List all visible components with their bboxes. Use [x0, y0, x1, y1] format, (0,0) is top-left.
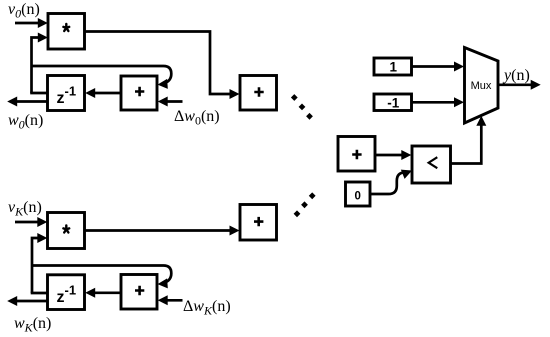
wire delta-w0 input arrow: [158, 97, 183, 107]
wire constant -1 to mux: [412, 97, 465, 107]
adder A2 box (weight update, tap K): [121, 275, 157, 310]
summer glyph +: [352, 150, 361, 159]
svg-text:vK(n): vK(n): [8, 199, 42, 219]
chain adder S2 box: [240, 205, 277, 241]
adder A2 glyph +: [135, 286, 144, 295]
svg-text:y(n): y(n): [502, 67, 530, 84]
svg-text:w0(n): w0(n): [8, 112, 43, 132]
multiplier U2 box: [48, 213, 85, 249]
wire w0 output arrow: [7, 97, 47, 107]
mux trapezoid: [465, 48, 499, 124]
wire multiplier U1 output to chain adder S1: [85, 32, 240, 100]
wire tap from delay output to feedback junction: [30, 92, 47, 95]
chain adder S1 box: [240, 76, 277, 111]
wire y(n) output arrow: [498, 80, 541, 90]
constant 1 box: [374, 58, 412, 75]
wire vK input arrow: [15, 217, 47, 227]
comparator box <: [412, 146, 451, 183]
wire adder A2 to delay (tap K): [85, 288, 121, 298]
wire delta-wK input arrow: [158, 295, 183, 305]
wire constant 0 to comparator (s-curve): [370, 166, 414, 194]
ellipsis dots upper chain: [291, 94, 313, 120]
wire comparator output to mux select: [451, 116, 487, 164]
constant -1 box: [374, 94, 412, 111]
chain adder S1 glyph +: [254, 87, 263, 96]
constant 0 box: [346, 182, 371, 206]
wire multiplier U2 output to chain adder S2: [85, 226, 240, 236]
multiplier U2 glyph *: [63, 225, 69, 232]
wire adder A1 to delay (tap 0): [85, 88, 121, 98]
summer box +: [338, 137, 375, 172]
wire summer to comparator: [375, 150, 411, 160]
svg-text:1: 1: [390, 60, 398, 75]
chain adder S2 glyph +: [254, 217, 263, 226]
svg-text:wK(n): wK(n): [14, 315, 51, 335]
wire constant 1 to mux: [412, 62, 465, 72]
wire w0 feedback vertical to multiplier second input: [32, 33, 48, 94]
adder A1 glyph +: [135, 87, 144, 96]
svg-text:Mux: Mux: [471, 80, 492, 92]
wire feedback over top into adder A1: [32, 66, 172, 90]
wire wK output arrow: [7, 296, 47, 306]
multiplier U1 box: [48, 14, 85, 50]
multiplier U1 glyph *: [63, 24, 69, 31]
comparator glyph <: [429, 157, 438, 168]
wire feedback over top into adder A2: [32, 266, 171, 290]
wire v0 input arrow: [15, 18, 48, 28]
ellipsis dots lower chain: [294, 192, 316, 217]
svg-text:-1: -1: [387, 95, 399, 110]
delay z-1 box (tap K): [48, 275, 85, 310]
svg-text:v0(n): v0(n): [8, 1, 40, 21]
adder A1 box (weight update, tap 0): [121, 76, 157, 110]
wire tap from delay output to feedback junction (tap K): [31, 292, 48, 295]
delay z-1 box (tap 0): [48, 76, 85, 111]
wire wK feedback vertical to multiplier second input: [32, 233, 47, 293]
svg-text:0: 0: [354, 190, 360, 202]
